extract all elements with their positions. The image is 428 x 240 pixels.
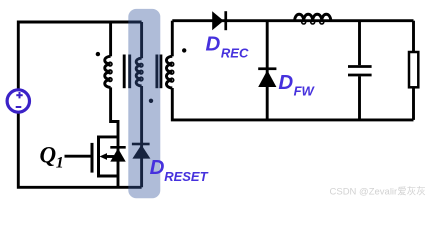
svg-text:D: D bbox=[150, 156, 165, 179]
svg-text:REC: REC bbox=[221, 45, 249, 60]
svg-text:D: D bbox=[206, 33, 221, 56]
svg-text:FW: FW bbox=[294, 84, 316, 99]
svg-text:1: 1 bbox=[56, 155, 64, 172]
svg-text:RESET: RESET bbox=[164, 169, 208, 184]
svg-text:Q: Q bbox=[40, 142, 57, 167]
svg-text:CSDN @Zevalir爱灰灰: CSDN @Zevalir爱灰灰 bbox=[330, 186, 426, 198]
svg-text:D: D bbox=[278, 71, 293, 94]
